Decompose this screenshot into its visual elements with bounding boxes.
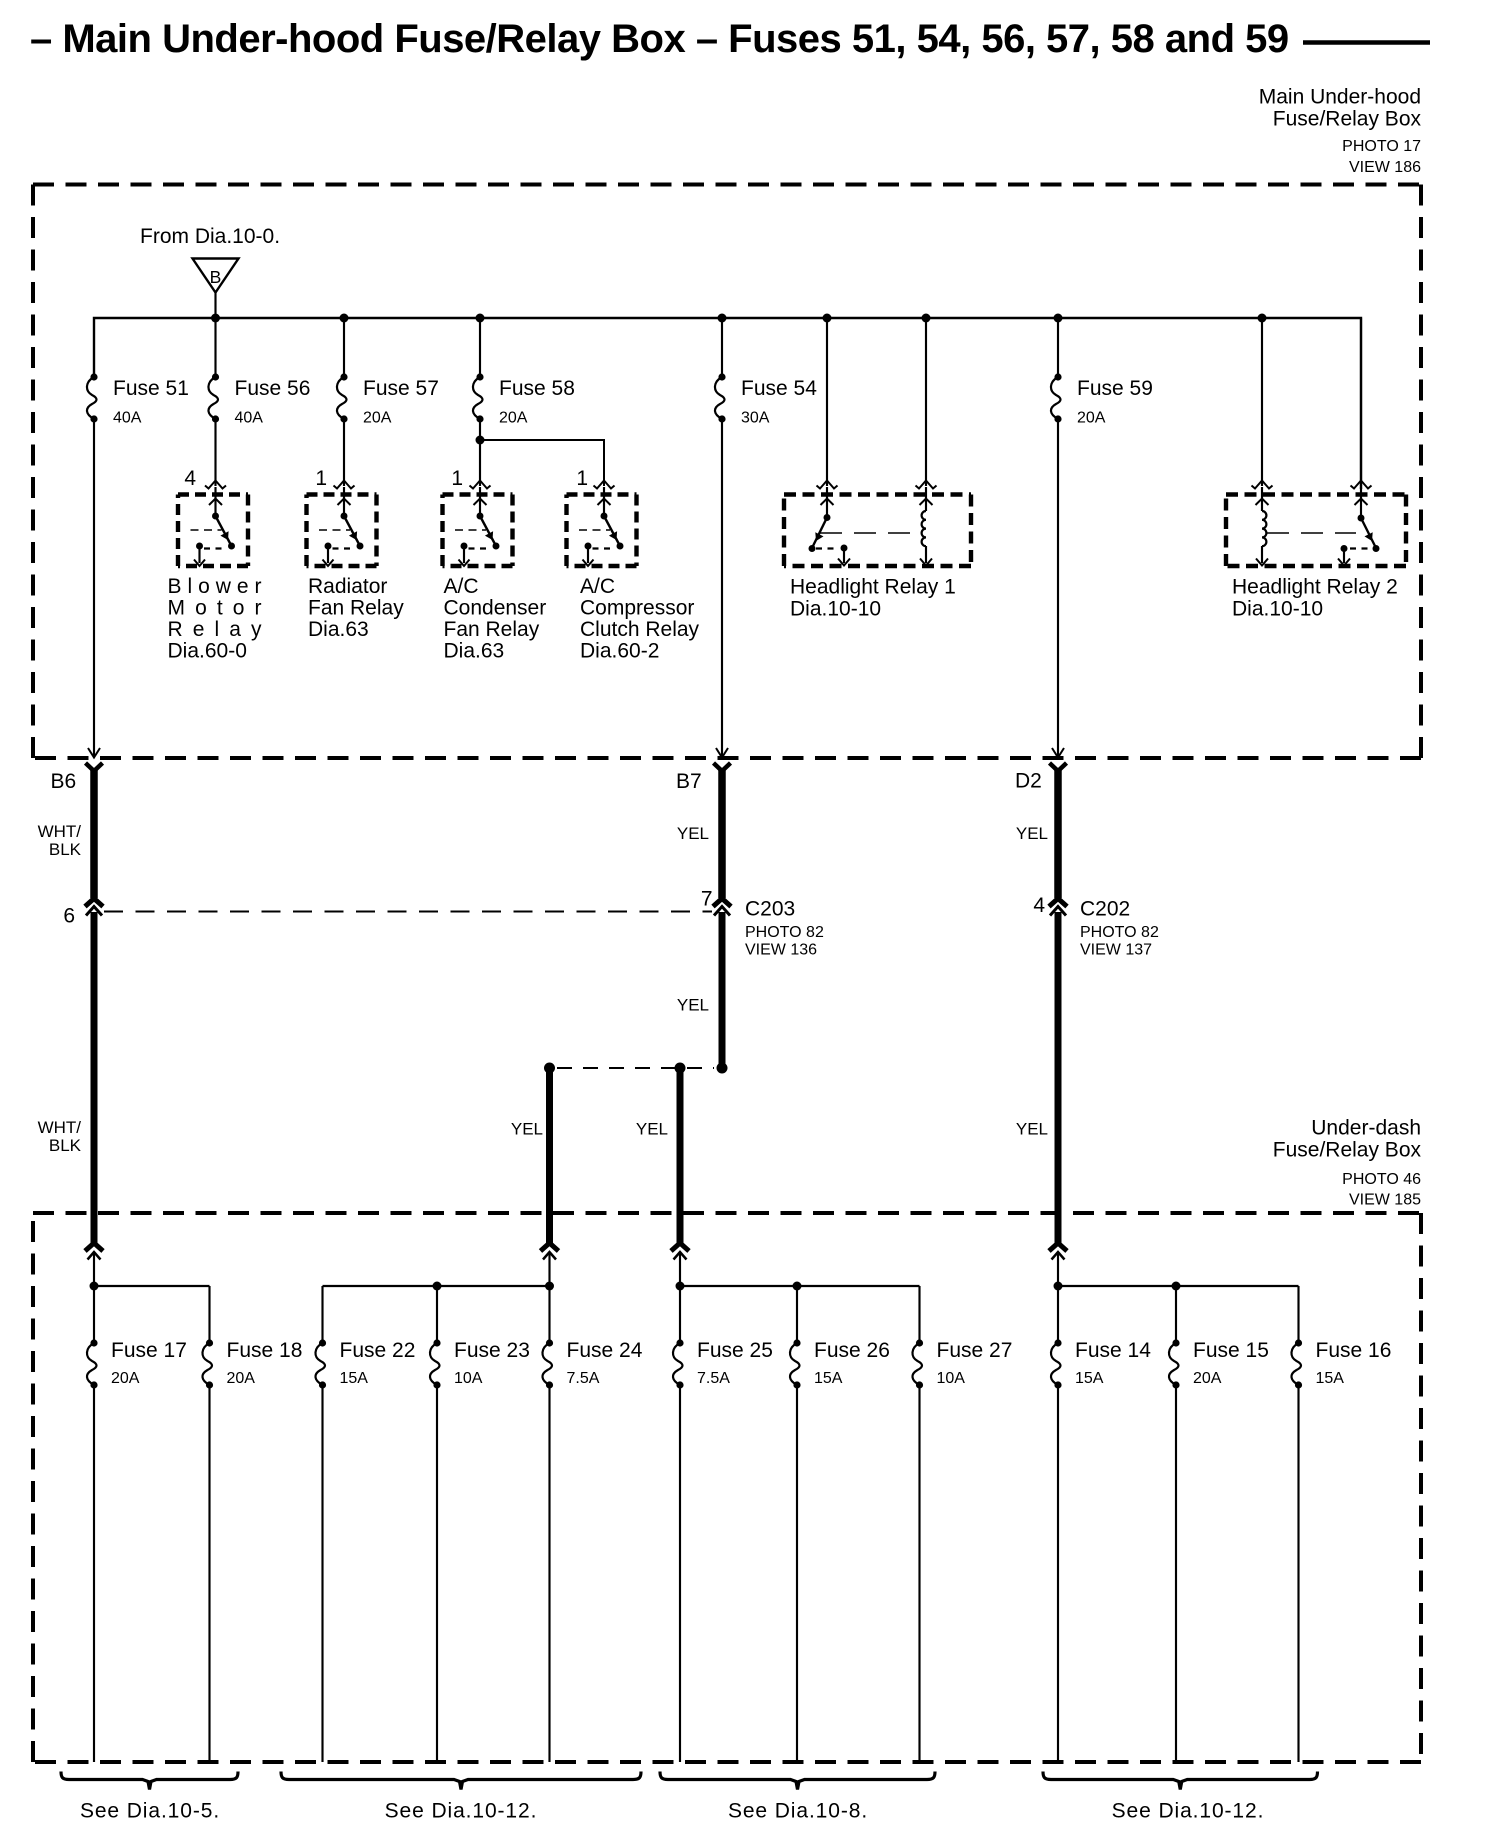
connector 4 C202 (1049, 899, 1067, 916)
svg-text:7: 7 (701, 888, 713, 911)
svg-text:20A: 20A (1077, 410, 1106, 427)
connector 6 C203 (85, 899, 103, 916)
fuse 54 (715, 373, 726, 422)
svg-text:Fan Relay: Fan Relay (308, 597, 404, 620)
wire splice to fuse 25 YEL (677, 1068, 684, 1246)
a/c condenser fan relay label (444, 575, 547, 663)
wire bus end to headlight relay 2 pin B (1360, 318, 1362, 486)
svg-text:Dia.60-0: Dia.60-0 (168, 640, 247, 663)
svg-text:Fuse 22: Fuse 22 (340, 1339, 416, 1362)
fuse 25 column (673, 1286, 684, 1762)
svg-text:From Dia.10-0.: From Dia.10-0. (140, 225, 280, 248)
brace see dia.10-12 right (1043, 1772, 1318, 1790)
svg-text:Fuse 15: Fuse 15 (1193, 1339, 1269, 1362)
label 7 (701, 888, 713, 911)
label see dia.10-5 (80, 1800, 220, 1823)
connector exit B7 (714, 748, 731, 771)
pin fork headlight relay 2 pin B (1351, 481, 1372, 489)
label B7 (676, 770, 702, 793)
radiator fan relay (307, 487, 377, 566)
svg-text:YEL: YEL (1016, 1120, 1048, 1139)
wire branch to a/c compressor clutch relay (480, 440, 604, 486)
svg-text:Dia.63: Dia.63 (444, 640, 505, 663)
label fuse 16 (1316, 1339, 1392, 1387)
label C203 (745, 898, 824, 959)
dashed splice link (557, 1067, 714, 1069)
main under-hood box annotation (1259, 86, 1422, 177)
svg-text:15A: 15A (340, 1370, 369, 1387)
fuse 22 column (315, 1286, 326, 1762)
wire bus to headlight relay 2 pin A (1261, 318, 1263, 486)
brace see dia.10-5 (61, 1772, 238, 1790)
wire fuse 58 to junction (479, 419, 481, 440)
label see dia.10-8 (728, 1800, 868, 1823)
svg-text:Fuse 17: Fuse 17 (111, 1339, 187, 1362)
svg-text:Fuse 56: Fuse 56 (235, 377, 311, 400)
label WHT/BLK upper (38, 822, 82, 859)
pin 1 label a/c condenser fan relay (451, 467, 463, 490)
svg-text:Fan Relay: Fan Relay (444, 618, 540, 641)
pin fork headlight relay 2 pin A (1252, 481, 1273, 489)
bus group 1 (90, 1282, 210, 1291)
label fuse 24 (567, 1339, 643, 1387)
wire B7 YEL upper (718, 769, 726, 898)
svg-text:6: 6 (63, 905, 75, 928)
svg-text:A/C: A/C (580, 575, 615, 598)
svg-text:Fuse 27: Fuse 27 (937, 1339, 1013, 1362)
svg-text:See Dia.10-5.: See Dia.10-5. (80, 1800, 220, 1823)
fuse 24 column (542, 1286, 553, 1762)
svg-text:Fuse 57: Fuse 57 (363, 377, 439, 400)
svg-text:PHOTO 17: PHOTO 17 (1342, 138, 1421, 155)
svg-text:Fuse 24: Fuse 24 (567, 1339, 643, 1362)
fuse 15 column (1169, 1286, 1180, 1762)
label D2 (1015, 770, 1042, 793)
pin 1 label a/c compressor clutch relay (576, 467, 588, 490)
svg-text:VIEW 137: VIEW 137 (1080, 942, 1152, 959)
bus group 4 (1054, 1282, 1299, 1291)
svg-text:Headlight Relay 2: Headlight Relay 2 (1232, 576, 1398, 599)
svg-text:1: 1 (576, 467, 588, 490)
svg-text:B: B (210, 267, 222, 287)
headlight relay 1 (784, 487, 971, 566)
svg-text:Relay: Relay (168, 618, 263, 641)
fuse 23 column (430, 1286, 441, 1762)
label fuse 22 (340, 1339, 416, 1387)
label YEL fuse 24 branch (511, 1120, 543, 1139)
bus group 2 (323, 1282, 555, 1291)
svg-text:30A: 30A (741, 410, 770, 427)
wire bus to fuse 54 (721, 318, 723, 377)
a/c compressor clutch relay (567, 487, 637, 566)
connector exit B6 (86, 748, 103, 771)
svg-text:C202: C202 (1080, 898, 1130, 921)
svg-text:Fuse 25: Fuse 25 (697, 1339, 773, 1362)
svg-text:A/C: A/C (444, 575, 479, 598)
label fuse 54 (741, 377, 817, 427)
fuse 59 (1051, 373, 1062, 422)
svg-text:Dia.63: Dia.63 (308, 618, 369, 641)
wire bus to headlight relay 1 pin A (826, 318, 828, 486)
wire bus to headlight relay 1 pin B (925, 318, 927, 486)
svg-text:See Dia.10-12.: See Dia.10-12. (385, 1800, 538, 1823)
brace see dia.10-8 (660, 1772, 935, 1790)
svg-text:Dia.10-10: Dia.10-10 (1232, 598, 1323, 621)
svg-text:YEL: YEL (636, 1120, 668, 1139)
svg-text:Fuse 18: Fuse 18 (227, 1339, 303, 1362)
pin fork a/c condenser fan relay (470, 481, 491, 489)
wire fuse 54 to B7 (721, 419, 723, 756)
svg-text:10A: 10A (454, 1370, 483, 1387)
svg-text:See Dia.10-8.: See Dia.10-8. (728, 1800, 868, 1823)
wire B6 (WHT/BLK lower) (91, 912, 98, 1246)
blower motor relay (178, 487, 248, 566)
label fuse 58 (499, 377, 575, 427)
brace see dia.10-12 left (281, 1772, 641, 1790)
svg-text:VIEW 185: VIEW 185 (1349, 1192, 1421, 1209)
svg-text:YEL: YEL (677, 996, 709, 1015)
fuse 58 (473, 373, 484, 422)
svg-text:4: 4 (184, 467, 196, 490)
svg-text:WHT/: WHT/ (38, 1118, 82, 1137)
svg-text:Radiator: Radiator (308, 575, 387, 598)
label see dia.10-12 left (385, 1800, 538, 1823)
svg-text:B6: B6 (51, 770, 77, 793)
svg-text:YEL: YEL (511, 1120, 543, 1139)
svg-text:YEL: YEL (677, 824, 709, 843)
a/c compressor clutch relay label (580, 575, 700, 663)
svg-text:20A: 20A (111, 1370, 140, 1387)
wire fuse 51 to B6 (93, 419, 95, 756)
pin 4 label (184, 467, 196, 490)
svg-text:Clutch Relay: Clutch Relay (580, 618, 700, 641)
headlight relay 2 label (1232, 576, 1398, 621)
svg-text:D2: D2 (1015, 770, 1042, 793)
svg-text:Fuse 58: Fuse 58 (499, 377, 575, 400)
svg-text:YEL: YEL (1016, 824, 1048, 843)
svg-text:40A: 40A (113, 410, 142, 427)
label fuse 59 (1077, 377, 1153, 427)
label fuse 56 (235, 377, 311, 427)
wire bus to fuse 59 (1057, 318, 1059, 377)
svg-text:BLK: BLK (49, 1136, 82, 1155)
svg-text:Fuse 26: Fuse 26 (814, 1339, 890, 1362)
main under-hood fuse/relay box (dashed outline) (33, 185, 1421, 759)
svg-text:See Dia.10-12.: See Dia.10-12. (1112, 1800, 1265, 1823)
connector entry fuse 17 (85, 1243, 103, 1286)
label 4 (1033, 894, 1045, 917)
svg-text:Headlight Relay 1: Headlight Relay 1 (790, 576, 956, 599)
under-dash box annotation (1273, 1117, 1422, 1209)
svg-text:WHT/: WHT/ (38, 822, 82, 841)
splice junction dots (544, 1063, 728, 1074)
svg-text:Motor: Motor (168, 597, 262, 620)
svg-text:1: 1 (451, 467, 463, 490)
label fuse 14 (1075, 1339, 1151, 1387)
svg-text:Dia.60-2: Dia.60-2 (580, 640, 659, 663)
pin 1 label radiator fan relay (315, 467, 327, 490)
svg-text:7.5A: 7.5A (567, 1370, 600, 1387)
svg-text:Main Under-hood: Main Under-hood (1259, 86, 1421, 109)
svg-text:10A: 10A (937, 1370, 966, 1387)
wire bus to fuse 58 (479, 318, 481, 377)
label fuse 57 (363, 377, 439, 427)
pin fork headlight relay 1 pin B (916, 481, 937, 489)
fuse 18 column (202, 1286, 213, 1762)
label 6 (63, 905, 75, 928)
label WHT/BLK lower (38, 1118, 82, 1155)
headlight relay 2 (1226, 487, 1406, 566)
label B6 (51, 770, 77, 793)
label YEL D2 upper (1016, 824, 1048, 843)
svg-text:BLK: BLK (49, 840, 82, 859)
svg-text:Compressor: Compressor (580, 597, 694, 620)
svg-text:Under-dash: Under-dash (1311, 1117, 1421, 1140)
fuse 51 (87, 373, 98, 422)
label fuse 26 (814, 1339, 890, 1387)
connector entry fuse 25 (671, 1243, 689, 1286)
svg-text:VIEW 186: VIEW 186 (1349, 159, 1421, 176)
svg-text:Fuse/Relay Box: Fuse/Relay Box (1273, 108, 1422, 131)
pin fork radiator fan relay (334, 481, 355, 489)
svg-text:Fuse 16: Fuse 16 (1316, 1339, 1392, 1362)
pin fork a/c compressor clutch relay (594, 481, 615, 489)
svg-text:VIEW 136: VIEW 136 (745, 942, 817, 959)
svg-text:4: 4 (1033, 894, 1045, 917)
title rule (1303, 40, 1430, 45)
label fuse 18 (227, 1339, 303, 1387)
svg-text:Dia.10-10: Dia.10-10 (790, 598, 881, 621)
wire B6 (WHT/BLK upper) (90, 769, 98, 898)
label YEL B7 lower (677, 996, 709, 1015)
pin fork blower motor relay (205, 481, 226, 489)
label YEL B7 upper (677, 824, 709, 843)
junction fuse 58 branch (476, 436, 485, 445)
svg-text:Fuse 51: Fuse 51 (113, 377, 189, 400)
svg-text:Fuse/Relay Box: Fuse/Relay Box (1273, 1139, 1422, 1162)
svg-text:15A: 15A (814, 1370, 843, 1387)
fuse 26 column (790, 1286, 801, 1762)
fuse 56 (208, 373, 219, 422)
blower motor relay label (168, 575, 263, 663)
svg-text:PHOTO 82: PHOTO 82 (745, 924, 824, 941)
svg-text:C203: C203 (745, 898, 795, 921)
svg-text:– Main Under-hood Fuse/Relay B: – Main Under-hood Fuse/Relay Box – Fuses… (30, 17, 1289, 61)
connector 7 C203 (713, 899, 731, 916)
label C202 (1080, 898, 1159, 959)
connector entry fuse 14 (1049, 1243, 1067, 1286)
svg-text:PHOTO 82: PHOTO 82 (1080, 924, 1159, 941)
pin fork headlight relay 1 pin A (817, 481, 838, 489)
fuse 57 (337, 373, 348, 422)
label fuse 15 (1193, 1339, 1269, 1387)
fuse 16 column (1291, 1286, 1302, 1762)
wire fuse 59 to D2 (1057, 419, 1059, 756)
svg-text:Fuse 54: Fuse 54 (741, 377, 817, 400)
headlight relay 1 label (790, 576, 956, 621)
wire bus to fuse 56 (214, 318, 216, 377)
power feed triangle B (193, 259, 239, 293)
a/c condenser fan relay (443, 487, 513, 566)
radiator fan relay label (308, 575, 404, 641)
svg-text:PHOTO 46: PHOTO 46 (1342, 1171, 1421, 1188)
bus group 3 (676, 1282, 920, 1291)
diagram title (30, 17, 1289, 61)
fuse 27 column (912, 1286, 923, 1762)
label see dia.10-12 right (1112, 1800, 1265, 1823)
label fuse 23 (454, 1339, 530, 1387)
main bus wire (94, 318, 1361, 489)
svg-text:20A: 20A (1193, 1370, 1222, 1387)
svg-text:15A: 15A (1075, 1370, 1104, 1387)
svg-text:40A: 40A (235, 410, 264, 427)
wire triangle B to bus (214, 293, 216, 319)
label fuse 25 (697, 1339, 773, 1387)
dashed link C203 row (104, 911, 712, 913)
wire B7 YEL lower (719, 912, 726, 1064)
wire D2 YEL upper (1054, 769, 1062, 898)
fuse 14 column (1051, 1286, 1062, 1762)
wire splice to fuse 24 YEL (546, 1068, 553, 1246)
svg-text:Condenser: Condenser (444, 597, 547, 620)
label YEL D2 lower (1016, 1120, 1048, 1139)
label From Dia.10-0. (140, 225, 280, 248)
connector exit D2 (1050, 748, 1067, 771)
svg-text:1: 1 (315, 467, 327, 490)
svg-text:20A: 20A (363, 410, 392, 427)
svg-text:Fuse 14: Fuse 14 (1075, 1339, 1151, 1362)
label YEL fuse 25 branch (636, 1120, 668, 1139)
svg-text:Fuse 59: Fuse 59 (1077, 377, 1153, 400)
wire fuse 56 to blower motor relay (214, 419, 216, 486)
fuse 17 column (87, 1286, 98, 1762)
svg-text:20A: 20A (499, 410, 528, 427)
wire junction to a/c condenser fan relay (479, 440, 481, 486)
svg-text:Blower: Blower (168, 575, 262, 598)
label fuse 27 (937, 1339, 1013, 1387)
svg-text:15A: 15A (1316, 1370, 1345, 1387)
wire D2 YEL lower (1055, 912, 1062, 1246)
connector entry fuse 24 (541, 1243, 559, 1286)
svg-text:20A: 20A (227, 1370, 256, 1387)
label fuse 17 (111, 1339, 187, 1387)
under-dash fuse/relay box (dashed outline) (33, 1213, 1421, 1762)
wire bus to fuse 57 (343, 318, 345, 377)
svg-text:B7: B7 (676, 770, 702, 793)
svg-text:7.5A: 7.5A (697, 1370, 730, 1387)
label fuse 51 (113, 377, 189, 427)
svg-text:Fuse 23: Fuse 23 (454, 1339, 530, 1362)
bus junction dots (211, 314, 1267, 323)
wire fuse 57 to radiator fan relay (343, 419, 345, 486)
